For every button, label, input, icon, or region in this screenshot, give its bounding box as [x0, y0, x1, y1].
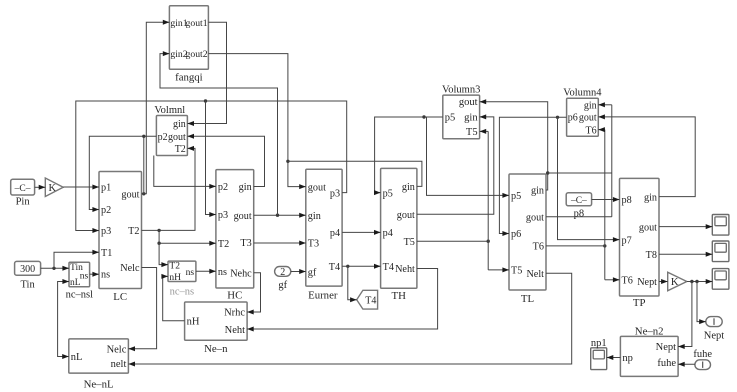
svg-text:300: 300: [20, 264, 35, 275]
svg-text:Volumn4: Volumn4: [563, 88, 602, 99]
svg-text:gin: gin: [584, 101, 597, 112]
svg-text:Nelc: Nelc: [107, 344, 127, 355]
svg-text:gout: gout: [121, 190, 139, 201]
svg-text:p5: p5: [511, 191, 521, 202]
svg-text:T2: T2: [128, 226, 139, 237]
svg-text:T2: T2: [175, 144, 186, 155]
svg-text:nH: nH: [187, 316, 200, 327]
svg-text:p2: p2: [218, 182, 228, 193]
svg-text:2: 2: [280, 267, 285, 278]
svg-text:T5: T5: [511, 266, 522, 277]
svg-text:Neht: Neht: [225, 325, 245, 336]
svg-text:np: np: [622, 353, 633, 364]
svg-text:Tin: Tin: [20, 279, 35, 290]
svg-text:gin: gin: [644, 192, 657, 203]
svg-text:gin: gin: [464, 113, 478, 124]
svg-text:TL: TL: [521, 293, 534, 305]
svg-text:–C–: –C–: [570, 196, 587, 206]
svg-text:p8: p8: [574, 208, 585, 219]
svg-text:Nelt: Nelt: [526, 269, 544, 280]
svg-text:T3: T3: [240, 238, 251, 249]
svg-text:Ne–nL: Ne–nL: [84, 379, 114, 391]
svg-text:nc–ns: nc–ns: [170, 287, 195, 298]
svg-text:Nelc: Nelc: [120, 263, 140, 274]
svg-text:fuhe: fuhe: [657, 358, 676, 369]
svg-text:Pin: Pin: [16, 196, 31, 207]
svg-text:Nept: Nept: [656, 342, 676, 353]
svg-text:p3: p3: [218, 210, 228, 221]
svg-text:gout: gout: [639, 222, 657, 233]
svg-text:T6: T6: [585, 125, 596, 136]
svg-text:nL: nL: [71, 352, 83, 363]
svg-text:Nept: Nept: [637, 277, 657, 288]
svg-text:gin: gin: [173, 119, 186, 130]
svg-text:p7: p7: [622, 235, 632, 246]
svg-text:Ne–n2: Ne–n2: [635, 325, 664, 337]
svg-text:p3: p3: [330, 188, 340, 199]
svg-text:–C–: –C–: [14, 184, 31, 194]
svg-text:np1: np1: [591, 338, 607, 349]
svg-text:gout: gout: [168, 132, 186, 143]
svg-text:gout: gout: [308, 182, 326, 193]
svg-text:gout2: gout2: [186, 49, 208, 60]
svg-text:K: K: [671, 277, 679, 288]
svg-text:p6: p6: [568, 113, 578, 124]
svg-text:nL: nL: [70, 278, 81, 288]
svg-text:Ne–n: Ne–n: [204, 343, 228, 355]
svg-text:gf: gf: [278, 280, 287, 291]
svg-text:gin: gin: [308, 211, 321, 222]
svg-text:T3: T3: [308, 239, 319, 250]
svg-text:T4: T4: [383, 262, 394, 273]
svg-text:p3: p3: [101, 226, 111, 237]
svg-text:gout1: gout1: [186, 18, 208, 29]
svg-text:gout: gout: [234, 211, 252, 222]
svg-text:gf: gf: [308, 267, 317, 278]
svg-text:TH: TH: [391, 290, 406, 302]
svg-text:T4: T4: [329, 262, 340, 273]
svg-text:p6: p6: [511, 229, 521, 240]
svg-text:T5: T5: [466, 127, 478, 138]
svg-text:nelt: nelt: [111, 359, 127, 370]
svg-text:Nrhc: Nrhc: [224, 308, 245, 319]
svg-text:ns: ns: [218, 267, 227, 278]
svg-text:gout: gout: [526, 213, 544, 224]
svg-text:T1: T1: [101, 248, 112, 259]
svg-text:nc–nsl: nc–nsl: [66, 290, 93, 301]
svg-text:gout: gout: [459, 97, 478, 108]
svg-text:Neht: Neht: [395, 264, 415, 275]
svg-text:p4: p4: [383, 228, 393, 239]
svg-text:LC: LC: [113, 291, 127, 303]
svg-text:p1: p1: [101, 183, 111, 194]
svg-text:T5: T5: [404, 237, 415, 248]
svg-text:gin: gin: [531, 186, 544, 197]
svg-text:p2: p2: [158, 132, 168, 143]
svg-text:Volmnl: Volmnl: [154, 105, 185, 116]
svg-text:fuhe: fuhe: [693, 349, 712, 360]
svg-text:Eurner: Eurner: [308, 290, 338, 302]
svg-text:T4: T4: [365, 295, 376, 306]
svg-text:ns: ns: [101, 270, 110, 281]
svg-text:p8: p8: [622, 195, 632, 206]
svg-text:HC: HC: [227, 289, 242, 301]
svg-text:T8: T8: [646, 250, 657, 261]
svg-text:p5: p5: [383, 188, 393, 199]
svg-text:gout: gout: [579, 113, 597, 124]
svg-text:T6: T6: [622, 276, 633, 287]
svg-text:p5: p5: [445, 113, 456, 124]
svg-text:gin: gin: [402, 182, 415, 193]
svg-text:Nept: Nept: [704, 330, 724, 341]
svg-text:K: K: [49, 183, 57, 194]
svg-text:T2: T2: [169, 261, 180, 271]
svg-text:T2: T2: [218, 239, 229, 250]
svg-text:gout: gout: [397, 210, 415, 221]
svg-text:Nehc: Nehc: [230, 268, 252, 279]
svg-text:fangqi: fangqi: [175, 72, 203, 84]
svg-text:p4: p4: [330, 228, 340, 239]
svg-text:p2: p2: [101, 205, 111, 216]
svg-text:gin: gin: [239, 182, 252, 193]
svg-text:Volumn3: Volumn3: [442, 85, 480, 96]
svg-text:ns: ns: [80, 271, 89, 281]
svg-text:nH: nH: [169, 273, 181, 283]
svg-text:ns: ns: [186, 268, 195, 278]
svg-text:T6: T6: [533, 242, 544, 253]
svg-text:TP: TP: [633, 297, 646, 309]
